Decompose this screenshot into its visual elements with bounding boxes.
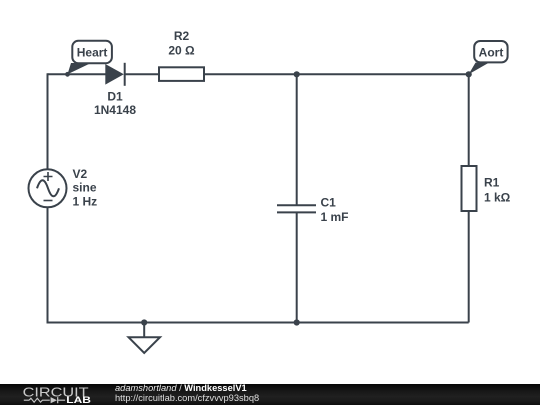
junction node Aort [466,71,472,77]
junction ground [141,319,147,325]
resistor R2 [159,67,204,81]
flag Heart pointer [65,63,91,77]
label 1 Hz [73,195,98,209]
diode D1 [105,63,124,86]
ground [129,323,161,354]
footer bar [0,384,540,405]
svg-text:20 Ω: 20 Ω [168,44,195,58]
label 20 Ω [168,44,195,58]
wire R1 branch upper [468,74,470,166]
voltage source V2 [29,169,67,207]
svg-text:1N4148: 1N4148 [94,103,136,117]
label sine [73,181,97,195]
svg-text:1 Hz: 1 Hz [73,195,98,209]
junction top of C1 [294,71,300,77]
label V2 [73,167,88,181]
svg-text:1 mF: 1 mF [321,210,349,224]
svg-text:V2: V2 [73,167,88,181]
wire D1 cathode to R2 [125,73,159,75]
footer text line 2 [115,394,259,404]
wire top-left segment from V2 branch to D1 anode [48,73,107,75]
label 1N4148 [94,103,136,117]
svg-text:LAB: LAB [66,395,91,405]
label R1 [484,176,500,190]
svg-text:D1: D1 [107,90,123,104]
wire R1 branch lower [468,211,470,323]
label R2 [174,29,190,43]
svg-text:C1: C1 [321,196,337,210]
footer text line 1 [115,384,247,394]
label 1 kΩ [484,190,511,204]
wire C1 top node to Aort node [297,73,469,75]
svg-text:R1: R1 [484,176,500,190]
flag Aort pointer [469,63,489,75]
label C1 [321,196,337,210]
svg-text:Heart: Heart [77,46,108,60]
flag Heart box [72,41,112,63]
resistor R1 [462,166,477,211]
svg-text:Aort: Aort [479,45,504,59]
label D1 [107,90,123,104]
svg-text:1 kΩ: 1 kΩ [484,190,511,204]
flag Aort box [474,41,507,62]
junction bottom of C1 [294,319,300,325]
label Aort [479,45,504,59]
wire bottom rail [48,322,469,324]
wire C1 branch lower [296,212,298,322]
wire left vertical upper (node to V2 top) [47,73,49,169]
CircuitLab logo [18,384,114,405]
label Heart [77,46,108,60]
svg-text:R2: R2 [174,29,190,43]
label 1 mF [321,210,349,224]
wire left vertical lower (V2 bottom to bottom rail) [47,207,49,323]
capacitor C1 [277,205,316,212]
svg-text:sine: sine [73,181,97,195]
wire R2 to C1 top node [204,73,297,75]
wire C1 branch upper [296,74,298,205]
